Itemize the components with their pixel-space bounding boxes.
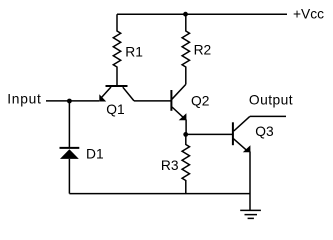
svg-text:R1: R1	[125, 45, 143, 60]
ground symbol	[240, 210, 261, 218]
node: rail junction	[183, 12, 188, 17]
diode D1 lead bottom	[68, 159, 70, 194]
transistor Q1 emitter line	[102, 87, 112, 98]
wire: Q1 collector to Q2 base	[134, 100, 171, 102]
diode D1 lead top	[68, 101, 70, 147]
resistor R3	[182, 134, 189, 193]
node: input junction	[67, 99, 72, 104]
svg-text:+Vcc: +Vcc	[293, 7, 324, 22]
wire: node to Q3 base	[186, 133, 233, 135]
transistor Q3 emitter arrow	[243, 145, 251, 152]
transistor Q3 emitter line	[233, 139, 250, 211]
transistor Q3 collector line	[234, 116, 250, 131]
transistor Q2 base bar	[170, 90, 172, 111]
wire: output lead	[250, 115, 286, 117]
transistor Q3 base bar	[232, 122, 234, 145]
transistor Q2 collector line	[172, 84, 186, 99]
diode D1 cathode bar	[60, 147, 80, 149]
wire: +Vcc rail	[117, 13, 287, 15]
svg-text:R2: R2	[194, 42, 212, 57]
transistor Q2 emitter arrow	[179, 113, 187, 120]
svg-text:Q3: Q3	[255, 124, 274, 139]
transistor Q2 emitter line	[172, 107, 186, 134]
transistor Q1 collector line	[123, 87, 134, 101]
transistor Q1 base bar	[106, 85, 128, 87]
resistor R2	[182, 14, 189, 84]
svg-text:D1: D1	[86, 146, 104, 161]
wire: Input lead	[46, 100, 99, 102]
transistor Q1 emitter arrow	[99, 94, 106, 101]
resistor R1	[113, 14, 120, 86]
svg-text:Q2: Q2	[191, 94, 209, 109]
svg-text:Q1: Q1	[106, 102, 124, 117]
node: Q2 emitter / R3 / Q3 base junction	[183, 132, 188, 137]
diode D1 triangle	[60, 149, 79, 159]
svg-text:Input: Input	[7, 91, 41, 106]
wire: ground bus	[69, 193, 250, 195]
svg-text:R3: R3	[161, 158, 179, 173]
svg-text:Output: Output	[249, 93, 293, 108]
